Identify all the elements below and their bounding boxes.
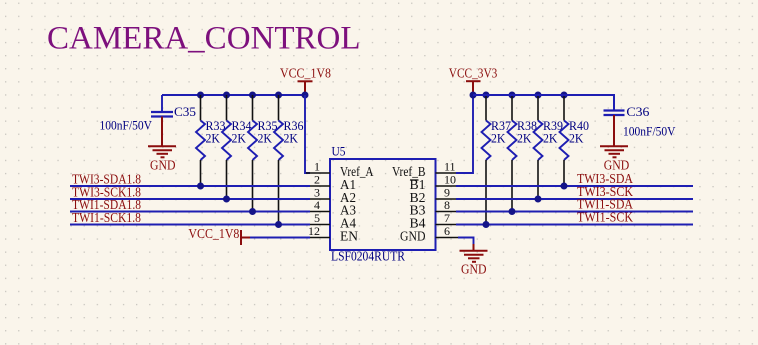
junction: R36 to TWI1-SCK1.8 <box>275 221 282 228</box>
svg-text:2K: 2K <box>543 131 558 146</box>
pin 11 Vref_B <box>392 160 456 180</box>
svg-text:C35: C35 <box>174 104 196 119</box>
svg-text:EN: EN <box>340 229 358 244</box>
power port VCC_1V8 (top) <box>298 81 313 95</box>
svg-text:2K: 2K <box>284 131 299 146</box>
svg-text:LSF0204RUTR: LSF0204RUTR <box>331 249 405 264</box>
svg-text:6: 6 <box>444 224 450 238</box>
wire: right VCC bus <box>473 94 614 96</box>
pin 7 B4 <box>410 211 457 231</box>
wire: VCC_1V8 to pin 12 <box>250 237 310 239</box>
wire TWI1-SCK1.8 <box>70 224 310 226</box>
power port VCC_3V3 <box>466 81 481 95</box>
pin 6 GND <box>400 224 458 244</box>
wire TWI1-SDA (pin 8) <box>456 211 693 213</box>
ground GND (under C35) <box>148 117 176 173</box>
wire TWI3-SCK (pin 9) <box>456 198 693 200</box>
pin 10 B1 (active low) <box>410 173 457 193</box>
svg-text:100nF/50V: 100nF/50V <box>100 118 153 133</box>
svg-text:VCC_3V3: VCC_3V3 <box>449 66 498 81</box>
resistor R36 <box>274 95 304 225</box>
resistor R33 <box>196 95 226 186</box>
junction: R34 to TWI3-SCK1.8 <box>223 196 230 203</box>
pin 3 A2 <box>310 186 356 206</box>
pin 5 A4 <box>310 211 356 231</box>
pin 4 A3 <box>310 198 356 218</box>
svg-text:10: 10 <box>444 173 456 187</box>
junction: R33 to TWI3-SDA1.8 <box>197 183 204 190</box>
svg-text:2K: 2K <box>206 131 221 146</box>
resistor R37 <box>482 95 512 225</box>
wire: pin 11 up to VCC bus <box>456 95 473 173</box>
wire TWI3-SCK1.8 <box>70 198 310 200</box>
junction: R39 to TWI3-SCK <box>535 196 542 203</box>
svg-text:GND: GND <box>400 229 426 244</box>
capacitor C36 <box>473 95 676 139</box>
junction: R35 to TWI1-SDA1.8 <box>249 208 256 215</box>
svg-text:VCC_1V8: VCC_1V8 <box>280 66 331 81</box>
svg-text:8: 8 <box>444 198 450 212</box>
pin 12 EN <box>308 224 358 244</box>
junction dots left bus <box>197 92 309 99</box>
svg-text:2K: 2K <box>232 131 247 146</box>
svg-text:TWI1-SCK1.8: TWI1-SCK1.8 <box>72 210 141 225</box>
pin 8 B3 <box>410 198 457 218</box>
pin 2 A1 <box>310 173 356 193</box>
svg-text:2: 2 <box>314 173 320 187</box>
wire TWI1-SDA1.8 <box>70 211 310 213</box>
wire: pin 6 to ground <box>458 238 474 247</box>
junction: R37 to TWI1-SCK <box>483 221 490 228</box>
wire TWI1-SCK (pin 7) <box>456 224 693 226</box>
svg-text:C36: C36 <box>626 104 650 119</box>
ground GND (under C36) <box>600 115 629 173</box>
ground GND (pin 6) <box>460 244 488 276</box>
svg-text:1: 1 <box>314 160 320 174</box>
pin 9 B2 <box>410 186 457 206</box>
svg-text:GND: GND <box>150 158 176 173</box>
svg-text:2K: 2K <box>258 131 273 146</box>
resistor R38 <box>508 95 538 212</box>
capacitor C35 <box>100 95 197 133</box>
junction dots right bus <box>470 92 568 99</box>
svg-text:GND: GND <box>461 261 487 276</box>
resistor R34 <box>222 95 252 199</box>
svg-text:11: 11 <box>444 160 456 174</box>
wire: VCC bus to pin 1 <box>305 95 310 173</box>
svg-text:2K: 2K <box>491 131 506 146</box>
power port VCC_1V8 (pin 12) <box>188 226 250 245</box>
svg-text:7: 7 <box>444 211 450 225</box>
svg-text:VCC_1V8: VCC_1V8 <box>188 226 239 241</box>
resistor R39 <box>534 95 564 199</box>
resistor R35 <box>248 95 278 212</box>
svg-text:12: 12 <box>308 224 320 238</box>
IC U5 LSF0204RUTR <box>330 159 436 250</box>
wire TWI3-SDA1.8 <box>70 185 310 187</box>
junction: R38 to TWI1-SDA <box>509 208 516 215</box>
pin 1 Vref_A <box>306 160 374 180</box>
svg-text:2K: 2K <box>569 131 584 146</box>
svg-text:4: 4 <box>314 198 320 212</box>
svg-text:2K: 2K <box>517 131 532 146</box>
junction: R40 to TWI3-SDA <box>561 183 568 190</box>
wire TWI3-SDA (pin 10) <box>456 185 693 187</box>
svg-text:TWI1-SCK: TWI1-SCK <box>577 210 633 225</box>
resistor R40 <box>560 95 590 186</box>
svg-text:100nF/50V: 100nF/50V <box>623 124 676 139</box>
svg-text:5: 5 <box>314 211 320 225</box>
wire: left VCC bus <box>162 94 305 96</box>
svg-text:CAMERA_CONTROL: CAMERA_CONTROL <box>47 20 361 56</box>
svg-text:U5: U5 <box>332 144 346 159</box>
